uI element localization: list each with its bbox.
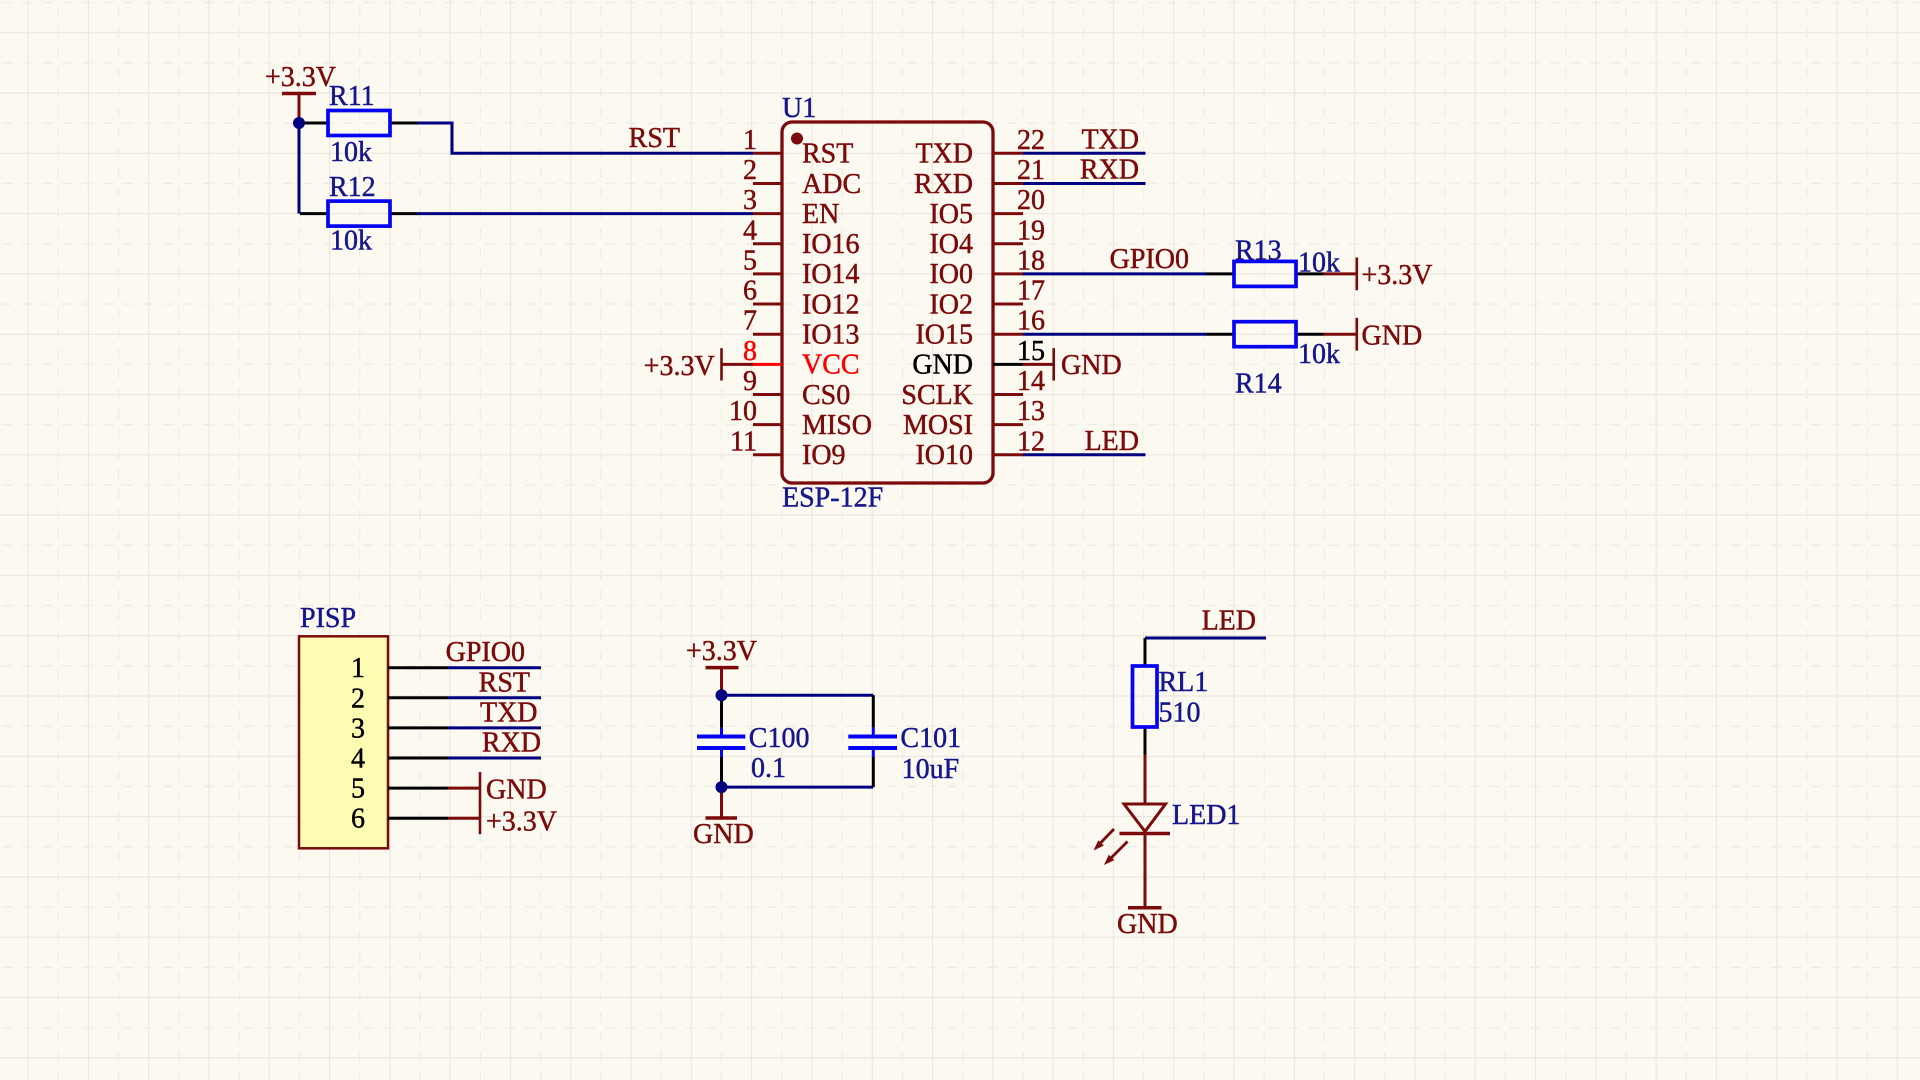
svg-text:LED: LED xyxy=(1202,606,1256,637)
svg-text:6: 6 xyxy=(743,276,757,307)
wire C100 bottom to C101 bottom xyxy=(722,786,874,789)
U1 right pin 22 (TXD) xyxy=(915,125,1045,170)
svg-text:GPIO0: GPIO0 xyxy=(1110,244,1189,275)
IC U1 (ESP-12F) body xyxy=(782,93,993,514)
capacitor C100 xyxy=(697,695,809,787)
svg-text:+3.3V: +3.3V xyxy=(1362,260,1433,291)
svg-text:19: 19 xyxy=(1017,215,1045,246)
wire C100 top to C101 top xyxy=(722,694,874,697)
svg-text:IO15: IO15 xyxy=(915,320,973,351)
U1 right pin 15 (GND) xyxy=(912,336,1045,381)
svg-text:R11: R11 xyxy=(329,81,375,112)
svg-text:IO4: IO4 xyxy=(929,229,973,260)
svg-text:2: 2 xyxy=(743,155,757,186)
svg-text:U1: U1 xyxy=(782,93,816,124)
U1 right pin 20 (IO5) xyxy=(929,185,1045,230)
U1 right pin 12 (IO10) xyxy=(915,426,1045,471)
svg-text:IO14: IO14 xyxy=(802,259,860,290)
svg-text:10: 10 xyxy=(729,396,757,427)
svg-text:2: 2 xyxy=(351,683,365,714)
svg-text:GND: GND xyxy=(1117,909,1178,940)
U1 right pin 19 (IO4) xyxy=(929,215,1045,260)
svg-text:LED: LED xyxy=(1085,426,1139,457)
svg-text:5: 5 xyxy=(351,774,365,805)
wire PISP pin 1 (GPIO0 net) xyxy=(448,666,541,669)
svg-text:LED1: LED1 xyxy=(1172,800,1240,831)
connector P1 (PISP) xyxy=(299,603,388,848)
wire U1 pin 21 (RXD net) xyxy=(1023,182,1146,185)
svg-text:RL1: RL1 xyxy=(1159,667,1209,698)
svg-text:10uF: 10uF xyxy=(902,754,960,785)
svg-text:MISO: MISO xyxy=(802,410,872,441)
svg-text:0.1: 0.1 xyxy=(751,753,786,784)
svg-text:RST: RST xyxy=(802,139,853,170)
svg-text:ADC: ADC xyxy=(802,169,861,200)
svg-text:GND: GND xyxy=(1362,321,1423,352)
svg-text:22: 22 xyxy=(1017,125,1045,156)
power +3.3V (U1 VCC pin 8) xyxy=(644,348,753,382)
capacitor C101 xyxy=(848,695,961,787)
ground (PISP pin 5) xyxy=(448,772,547,805)
U1 right pin 16 (IO15) xyxy=(915,306,1045,351)
wire U1 pin 16 to R14 xyxy=(1023,333,1207,336)
PISP pin 6 xyxy=(351,804,448,835)
wire R11 to U1 pin 1 (RST net) xyxy=(418,123,754,153)
svg-text:10k: 10k xyxy=(330,226,372,257)
svg-text:EN: EN xyxy=(802,199,839,230)
svg-text:11: 11 xyxy=(730,426,757,457)
svg-text:GND: GND xyxy=(912,350,973,381)
svg-text:IO5: IO5 xyxy=(929,199,973,230)
svg-text:TXD: TXD xyxy=(480,697,538,728)
ground (right of R14) xyxy=(1324,318,1423,352)
svg-text:RST: RST xyxy=(479,667,530,698)
U1 right pin 17 (IO2) xyxy=(929,276,1045,321)
U1 left pin 1 (RST) xyxy=(743,125,853,170)
svg-text:TXD: TXD xyxy=(1081,124,1139,155)
PISP pin 3 xyxy=(351,713,448,744)
wire LED net to RL1 xyxy=(1145,637,1266,640)
wire U1 pin 22 (TXD net) xyxy=(1023,152,1146,155)
wire R12 to U1 pin 3 xyxy=(418,212,754,215)
junction node (C100 bottom) xyxy=(716,781,728,793)
U1 right pin 18 (IO0) xyxy=(929,245,1045,290)
U1 left pin 4 (IO16) xyxy=(743,215,860,260)
svg-text:IO9: IO9 xyxy=(802,440,846,471)
svg-text:R12: R12 xyxy=(329,172,376,203)
svg-text:GND: GND xyxy=(486,774,547,805)
resistor R13 xyxy=(1207,236,1341,287)
svg-text:1: 1 xyxy=(351,653,365,684)
resistor R14 xyxy=(1207,322,1341,400)
svg-text:21: 21 xyxy=(1017,155,1045,186)
svg-text:IO10: IO10 xyxy=(915,440,973,471)
svg-text:1: 1 xyxy=(743,125,757,156)
junction node (C100 top) xyxy=(716,689,728,701)
LED1 emission arrow 1 xyxy=(1094,829,1115,851)
svg-text:MOSI: MOSI xyxy=(903,410,973,441)
U1 left pin 9 (CS0) xyxy=(743,366,850,411)
svg-text:10k: 10k xyxy=(1298,339,1340,370)
U1 left pin 5 (IO14) xyxy=(743,245,860,290)
svg-text:17: 17 xyxy=(1017,276,1045,307)
PISP pin 5 xyxy=(351,774,448,805)
svg-text:12: 12 xyxy=(1017,426,1045,457)
svg-text:RST: RST xyxy=(629,123,680,154)
U1 right pin 13 (MOSI) xyxy=(903,396,1045,441)
svg-text:4: 4 xyxy=(743,215,757,246)
svg-text:RXD: RXD xyxy=(1080,154,1139,185)
svg-text:+3.3V: +3.3V xyxy=(686,636,757,667)
wire PISP pin 2 (RST net) xyxy=(448,696,541,699)
PISP pin 4 xyxy=(351,744,448,775)
svg-text:PISP: PISP xyxy=(300,603,356,634)
svg-text:GND: GND xyxy=(1061,350,1122,381)
U1 left pin 8 (VCC) xyxy=(743,336,860,381)
svg-text:20: 20 xyxy=(1017,185,1045,216)
ground (U1 GND pin 15) xyxy=(1023,348,1122,381)
svg-text:13: 13 xyxy=(1017,396,1045,427)
svg-text:7: 7 xyxy=(743,306,757,337)
svg-text:IO13: IO13 xyxy=(802,320,860,351)
svg-text:TXD: TXD xyxy=(915,139,973,170)
LED LED1 xyxy=(1120,755,1241,908)
power +3.3V (right of R13) xyxy=(1324,258,1433,292)
svg-text:3: 3 xyxy=(743,185,757,216)
svg-text:15: 15 xyxy=(1017,336,1045,367)
svg-text:10k: 10k xyxy=(330,137,372,168)
U1 right pin 21 (RXD) xyxy=(914,155,1045,200)
svg-text:8: 8 xyxy=(743,336,757,367)
ground (below C100) xyxy=(693,787,754,850)
power +3.3V (top left) xyxy=(265,62,336,123)
svg-text:RXD: RXD xyxy=(914,169,973,200)
U1 left pin 10 (MISO) xyxy=(729,396,872,441)
U1 left pin 2 (ADC) xyxy=(743,155,861,200)
PISP pin 1 xyxy=(351,653,448,684)
svg-text:ESP-12F: ESP-12F xyxy=(782,483,883,514)
svg-text:C100: C100 xyxy=(749,723,810,754)
svg-text:C101: C101 xyxy=(900,723,961,754)
svg-text:RXD: RXD xyxy=(482,728,541,759)
svg-text:IO2: IO2 xyxy=(929,289,973,320)
ground (below LED1) xyxy=(1117,908,1178,940)
LED1 emission arrow 2 xyxy=(1104,842,1128,866)
svg-text:SCLK: SCLK xyxy=(901,380,973,411)
wire U1 pin 18 to R13 (GPIO0 net) xyxy=(1023,272,1207,275)
svg-text:GND: GND xyxy=(693,819,754,850)
U1 right pin 14 (SCLK) xyxy=(901,366,1045,411)
svg-text:IO12: IO12 xyxy=(802,289,860,320)
svg-text:6: 6 xyxy=(351,804,365,835)
wire U1 pin 12 (LED net) xyxy=(1023,453,1146,456)
svg-text:+3.3V: +3.3V xyxy=(644,351,715,382)
U1 left pin 3 (EN) xyxy=(743,185,839,230)
svg-text:IO16: IO16 xyxy=(802,229,860,260)
resistor RL1 xyxy=(1133,638,1209,755)
PISP pin 2 xyxy=(351,683,448,714)
U1 left pin 6 (IO12) xyxy=(743,276,860,321)
power +3.3V (above C100) xyxy=(686,636,757,695)
wire +3.3V junction to R12 xyxy=(298,123,301,214)
svg-text:VCC: VCC xyxy=(802,350,860,381)
svg-text:14: 14 xyxy=(1017,366,1045,397)
svg-text:GPIO0: GPIO0 xyxy=(446,637,525,668)
svg-text:5: 5 xyxy=(743,245,757,276)
power +3.3V (PISP pin 6) xyxy=(448,802,557,837)
svg-text:18: 18 xyxy=(1017,245,1045,276)
svg-text:CS0: CS0 xyxy=(802,380,850,411)
svg-text:R14: R14 xyxy=(1235,369,1282,400)
resistor R11 xyxy=(300,81,418,168)
svg-text:R13: R13 xyxy=(1235,236,1282,267)
svg-text:510: 510 xyxy=(1159,698,1201,729)
resistor R12 xyxy=(300,172,418,257)
svg-text:+3.3V: +3.3V xyxy=(486,807,557,838)
svg-text:+3.3V: +3.3V xyxy=(265,62,336,93)
U1 left pin 7 (IO13) xyxy=(743,306,860,351)
svg-text:4: 4 xyxy=(351,744,365,775)
U1 left pin 11 (IO9) xyxy=(730,426,846,471)
junction node (+3.3V / R11 / R12) xyxy=(293,117,305,129)
svg-text:16: 16 xyxy=(1017,306,1045,337)
svg-text:3: 3 xyxy=(351,713,365,744)
wire PISP pin 4 (RXD net) xyxy=(448,757,541,760)
wire PISP pin 3 (TXD net) xyxy=(448,726,541,729)
svg-text:IO0: IO0 xyxy=(929,259,973,290)
svg-text:9: 9 xyxy=(743,366,757,397)
